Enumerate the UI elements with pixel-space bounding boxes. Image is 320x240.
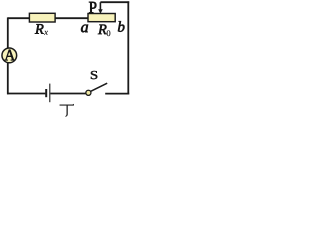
wiper arrow of R0 [99,2,101,10]
terminal label b [118,21,124,32]
terminal label a [81,25,88,33]
wire: left vertical segment, corner down to ammeter [7,17,9,48]
wire: top-left horizontal segment from corner to Rx [8,17,30,19]
wire: bottom segment from battery to switch [50,93,86,95]
background [0,0,132,121]
battery short plate (negative) [45,89,47,97]
wire: right vertical segment [127,1,129,94]
label S [91,71,97,79]
caption glyph ding (figure label) [60,105,74,106]
battery long plate (positive) [49,84,51,103]
label P [89,2,96,13]
wire: bottom segment from left corner to battery [7,93,45,95]
resistor Rx [29,13,55,22]
label Rx [35,24,44,33]
wire: bottom-right segment from switch contact to corner [105,93,129,95]
switch S blade [90,83,107,91]
wire: top wiper wire to top-right corner [100,1,129,3]
label R0 [98,25,107,34]
wire: left vertical segment, ammeter down to bottom corner [7,63,9,95]
wire: top segment between Rx and R0 [55,17,88,19]
rheostat R0 [88,14,115,22]
ammeter A [2,48,17,63]
switch S pivot [86,90,91,95]
